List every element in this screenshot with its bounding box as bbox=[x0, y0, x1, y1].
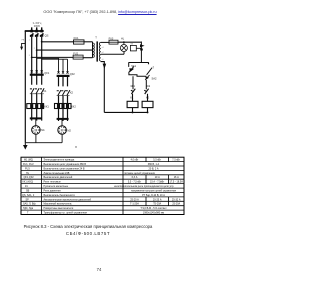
svg-text:питание цепей управления: питание цепей управления bbox=[124, 172, 155, 175]
node supply label 3~50Hz 380V bbox=[33, 21, 42, 28]
svg-text:К2: К2 bbox=[70, 91, 74, 95]
motor M1 bbox=[32, 126, 41, 135]
wire group2 L1 bbox=[58, 76, 60, 121]
wire control tap C bbox=[32, 56, 73, 58]
wire control tap A bbox=[42, 41, 74, 43]
contact KK2 aux bbox=[144, 89, 148, 94]
wire branch to group2 c bbox=[67, 59, 69, 72]
ground PE top arrow bbox=[20, 43, 25, 50]
svg-text:КК2: КК2 bbox=[146, 85, 151, 88]
svg-text:Реле давления: Реле давления bbox=[44, 190, 62, 193]
svg-text:М2: М2 bbox=[67, 129, 71, 132]
svg-text:SP: SP bbox=[26, 198, 30, 201]
svg-text:20-25 А: 20-25 А bbox=[153, 198, 162, 201]
svg-text:Выключатель безопасности: Выключатель безопасности bbox=[44, 194, 76, 197]
svg-text:17,5 - 18,5А: 17,5 - 18,5А bbox=[170, 181, 184, 184]
svg-text:2: 2 bbox=[34, 48, 35, 50]
contact SA2 bbox=[145, 75, 149, 80]
breaker QF2 bbox=[57, 71, 70, 76]
wire FU1 to transformer bbox=[84, 41, 93, 43]
lamp HL bbox=[120, 42, 127, 51]
node coil bus junctions bbox=[132, 111, 149, 113]
svg-text:Выключатель цепи управления 24: Выключатель цепи управления 24 В bbox=[44, 167, 85, 170]
wire branch to group2 a bbox=[37, 58, 59, 72]
coil K2 bbox=[142, 94, 153, 113]
svg-text:Т 9,0 В-М - 5 О-соответ: Т 9,0 В-М - 5 О-соответ bbox=[140, 207, 167, 210]
svg-text:5,5 - 7,5 кВт: 5,5 - 7,5 кВт bbox=[128, 181, 142, 184]
fuse FU1 bbox=[74, 40, 85, 44]
svg-text:PE: PE bbox=[22, 39, 25, 41]
svg-text:QF1,QF2: QF1,QF2 bbox=[24, 176, 35, 179]
svg-text:Трансформатор тр. цепей управл: Трансформатор тр. цепей управления bbox=[44, 212, 88, 215]
svg-text:КК2: КК2 bbox=[71, 104, 76, 108]
svg-text:10 А: 10 А bbox=[155, 176, 160, 179]
wire control tee bar bbox=[129, 63, 149, 65]
svg-text:FU2: FU2 bbox=[73, 51, 78, 55]
svg-text:М1 (М2): М1 (М2) bbox=[24, 159, 33, 162]
svg-text:SB: SB bbox=[26, 190, 30, 193]
coil K1 bbox=[127, 94, 138, 113]
wire N vertical bbox=[24, 31, 26, 143]
svg-text:25-20 А: 25-20 А bbox=[130, 198, 139, 201]
svg-text:5,5 кВт: 5,5 кВт bbox=[153, 159, 162, 162]
svg-text:SA2: SA2 bbox=[152, 76, 157, 80]
svg-text:1980х1145х980 мм: 1980х1145х980 мм bbox=[143, 212, 165, 215]
thermal relay KK1 bbox=[27, 104, 44, 109]
ground PE bottom arrow bbox=[23, 143, 28, 150]
svg-text:380 В, 1 А: 380 В, 1 А bbox=[148, 163, 160, 166]
svg-text:а2: а2 bbox=[102, 52, 104, 54]
svg-text:Автоматические выключатели дви: Автоматические выключатели двигателей bbox=[44, 198, 92, 201]
transformer T core bbox=[96, 41, 98, 61]
wire motor1 stub bbox=[35, 119, 37, 126]
switch QS bbox=[30, 30, 44, 37]
svg-text:РТ 5ар, 8-10 В, 10 А: РТ 5ар, 8-10 В, 10 А bbox=[142, 194, 165, 197]
wire after FU3 bbox=[118, 41, 141, 43]
node tap A junction bbox=[41, 41, 43, 43]
svg-text:7,5 кВт: 7,5 кВт bbox=[172, 159, 181, 162]
TABLE bbox=[21, 157, 184, 214]
wire branch to group2 b bbox=[42, 59, 68, 72]
svg-text:Реле тепловые: Реле тепловые bbox=[44, 181, 62, 184]
svg-text:Т5-20А: Т5-20А bbox=[153, 203, 161, 206]
svg-text:20 В, 2 А: 20 В, 2 А bbox=[148, 167, 158, 170]
svg-text:HL: HL bbox=[121, 38, 125, 41]
svg-text:QF1: QF1 bbox=[44, 71, 50, 75]
ground arrow on return wire bbox=[103, 64, 107, 69]
wire KM2 branch bbox=[145, 80, 147, 89]
svg-text:КК1: КК1 bbox=[44, 104, 49, 108]
svg-text:FU1, FU2: FU1, FU2 bbox=[23, 163, 34, 166]
svg-text:КК1 (КК2): КК1 (КК2) bbox=[23, 181, 34, 184]
fuse FU2 bbox=[73, 55, 83, 59]
wire SA1 drop bbox=[128, 63, 130, 67]
svg-text:3: 3 bbox=[29, 55, 30, 57]
svg-text:а1: а1 bbox=[102, 47, 104, 49]
svg-text:М1: М1 bbox=[41, 129, 45, 132]
wire group2 L3 bbox=[67, 76, 69, 121]
wire secondary mid tap to lamp bbox=[101, 52, 124, 55]
transformer T primary lead bbox=[92, 42, 94, 58]
wire control bottom bus bbox=[104, 111, 147, 113]
wire control rail bbox=[129, 72, 147, 76]
transformer T primary winding bbox=[93, 43, 94, 58]
svg-text:напряжение катушек цепей управ: напряжение катушек цепей управления bbox=[131, 190, 177, 193]
svg-text:380В: 380В bbox=[34, 24, 40, 28]
svg-text:Т: Т bbox=[95, 36, 97, 40]
wire supply stubs bbox=[32, 27, 42, 31]
wire motor1 collect bar bbox=[30, 117, 42, 119]
wire supply bus bbox=[25, 30, 44, 32]
svg-text:25-32 А: 25-32 А bbox=[172, 198, 181, 201]
motor M2 bbox=[58, 126, 67, 135]
svg-text:Электродвигатели привода: Электродвигатели привода bbox=[44, 159, 75, 162]
svg-text:FU3: FU3 bbox=[25, 167, 30, 170]
wire C to return column bbox=[83, 57, 92, 59]
contact x7 bbox=[147, 68, 152, 75]
svg-text:Выключатели цепи управления 38: Выключатели цепи управления 380 В bbox=[44, 163, 87, 166]
svg-text:HL: HL bbox=[26, 172, 30, 175]
wire motor2 collect bar bbox=[57, 118, 69, 120]
svg-text:SA1: SA1 bbox=[131, 64, 136, 68]
svg-text:Лампа сигнальная 24В: Лампа сигнальная 24В bbox=[44, 172, 70, 175]
svg-text:QS, SA1, 2: QS, SA1, 2 bbox=[22, 194, 35, 197]
node tap B junction bbox=[36, 49, 38, 51]
svg-text:К1: К1 bbox=[44, 89, 48, 93]
svg-text:QF2: QF2 bbox=[70, 72, 76, 76]
svg-text:ТД0, Лдв: ТД0, Лдв bbox=[23, 207, 34, 210]
pushbutton SB box bbox=[130, 45, 141, 51]
transformer T secondary winding bbox=[99, 42, 100, 61]
svg-text:6,3 А: 6,3 А bbox=[132, 176, 138, 179]
svg-text:х7: х7 bbox=[151, 66, 154, 70]
wire phase L1 bbox=[31, 37, 33, 121]
contact K1 main bbox=[30, 88, 44, 94]
node tap C junction bbox=[31, 57, 33, 59]
svg-text:Поворотные выключатели: Поворотные выключатели bbox=[44, 207, 74, 210]
svg-text:Т-1-20А: Т-1-20А bbox=[130, 203, 139, 206]
svg-text:FU1: FU1 bbox=[74, 36, 79, 40]
breaker QF1 bbox=[30, 70, 44, 75]
svg-text:Пускатели магнитные: Пускатели магнитные bbox=[44, 185, 69, 188]
contact K2 main bbox=[57, 90, 70, 96]
svg-text:М: М bbox=[34, 128, 37, 132]
svg-text:25-20А: 25-20А bbox=[172, 203, 180, 206]
svg-text:FU3: FU3 bbox=[109, 38, 114, 41]
node stray speck bbox=[75, 146, 76, 147]
svg-text:х1: х1 bbox=[102, 59, 104, 61]
svg-text:16 А: 16 А bbox=[174, 176, 179, 179]
pressure switch SP contact bbox=[140, 42, 145, 63]
svg-text:QS: QS bbox=[45, 34, 49, 38]
wire PE bottom bus bbox=[25, 134, 62, 143]
svg-text:Машинный выключатель: Машинный выключатель bbox=[44, 203, 73, 206]
svg-text:М: М bbox=[61, 129, 64, 133]
wire secondary bottom tap return bbox=[101, 62, 105, 113]
wire phase L3 bbox=[41, 37, 43, 121]
svg-text:на вспомогательном реле присое: на вспомогательном реле присоединяются ц… bbox=[114, 185, 174, 188]
thermal relay KK2 bbox=[55, 104, 72, 109]
wire KM1 branch bbox=[132, 76, 134, 89]
contact SA1 bbox=[129, 67, 134, 72]
svg-text:Выключатели двигателей: Выключатели двигателей bbox=[44, 176, 73, 179]
svg-text:4,0 кВт: 4,0 кВт bbox=[131, 159, 140, 162]
contact KK1 aux bbox=[131, 89, 135, 94]
svg-text:КК1: КК1 bbox=[131, 85, 136, 88]
svg-text:К1: К1 bbox=[25, 185, 28, 188]
wire secondary top tap bbox=[101, 41, 109, 43]
wire group2 L2 bbox=[62, 76, 64, 121]
svg-text:1: 1 bbox=[29, 40, 30, 42]
node lamp tap bbox=[123, 41, 125, 43]
wire motor2 stub bbox=[61, 120, 63, 126]
svg-text:15 А - 7,5кВт: 15 А - 7,5кВт bbox=[150, 181, 165, 184]
fuse FU3 bbox=[109, 40, 118, 44]
wire control tap B bbox=[37, 49, 93, 51]
wire phase L2 bbox=[36, 37, 38, 121]
svg-text:SA0, Л, Вф: SA0, Л, Вф bbox=[23, 203, 36, 206]
